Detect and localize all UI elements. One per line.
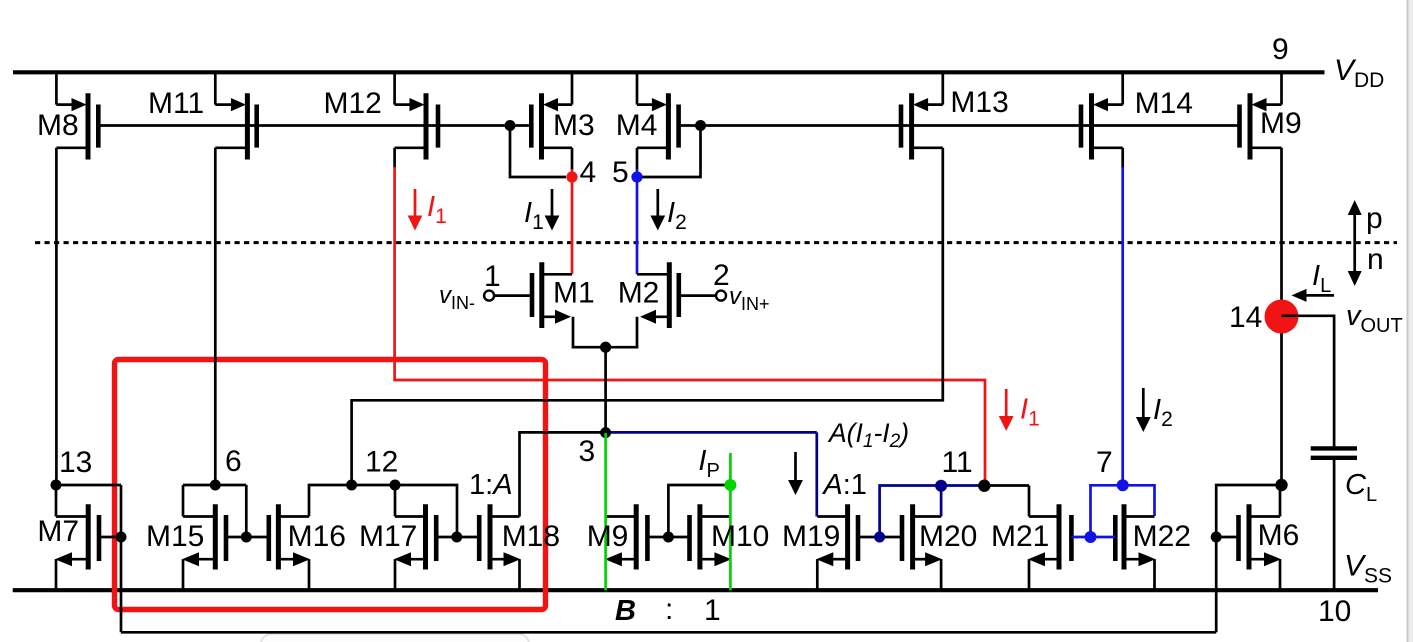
svg-text:A:1: A:1	[821, 469, 867, 501]
svg-text:n: n	[1367, 243, 1384, 276]
svg-text:M18: M18	[502, 520, 560, 553]
svg-text:M13: M13	[950, 86, 1008, 119]
svg-text:M15: M15	[146, 520, 204, 553]
svg-text:M17: M17	[359, 520, 417, 553]
svg-text:M4: M4	[616, 109, 658, 142]
svg-text:10: 10	[1318, 595, 1351, 628]
svg-text:4: 4	[580, 156, 597, 189]
svg-text:M22: M22	[1133, 520, 1191, 553]
svg-text:1:A: 1:A	[469, 469, 513, 501]
svg-text:5: 5	[612, 156, 629, 189]
svg-text:M10: M10	[711, 520, 769, 553]
svg-text:M14: M14	[1135, 87, 1193, 120]
svg-text:12: 12	[365, 446, 398, 479]
svg-text:M9: M9	[1260, 107, 1302, 140]
svg-text:11: 11	[942, 446, 973, 479]
svg-text:13: 13	[59, 446, 92, 479]
svg-text:1: 1	[484, 260, 501, 293]
svg-text:6: 6	[225, 445, 242, 478]
svg-text:M3: M3	[553, 109, 595, 142]
svg-text:M9: M9	[587, 520, 629, 553]
svg-text:M7: M7	[37, 515, 79, 548]
svg-text:M12: M12	[324, 87, 382, 120]
svg-text:M2: M2	[618, 277, 660, 310]
svg-text:7: 7	[1096, 446, 1113, 479]
svg-text:1: 1	[704, 594, 721, 627]
svg-text::: :	[665, 593, 673, 626]
svg-text:2: 2	[713, 259, 730, 292]
svg-text:3: 3	[579, 435, 596, 468]
svg-text:M1: M1	[553, 277, 595, 310]
svg-text:M19: M19	[782, 520, 840, 553]
svg-text:M11: M11	[148, 87, 204, 120]
svg-text:9: 9	[1272, 33, 1289, 66]
svg-text:M20: M20	[919, 520, 977, 553]
svg-text:p: p	[1366, 202, 1383, 235]
svg-text:M8: M8	[37, 109, 79, 142]
svg-text:14: 14	[1229, 301, 1262, 334]
svg-text:M16: M16	[288, 520, 346, 553]
svg-text:B: B	[615, 595, 636, 627]
svg-text:M6: M6	[1258, 519, 1300, 552]
svg-text:M21: M21	[991, 520, 1049, 553]
